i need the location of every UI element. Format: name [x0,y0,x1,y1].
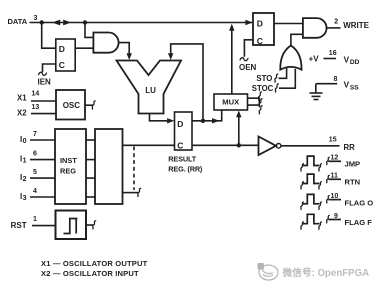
oscillator OSC block [56,90,85,120]
wire bidirectional arrowheads on DATA line [52,20,71,26]
svg-text:3: 3 [34,15,38,22]
svg-text:WRITE: WRITE [343,21,369,30]
svg-text:12: 12 [331,155,339,162]
svg-text:REG: REG [60,167,76,176]
svg-text:1: 1 [33,216,37,223]
node RTN pin 11 output pulse [301,174,342,189]
svg-text:2: 2 [334,18,338,25]
wire OR output up into WRITE AND gate [291,34,303,46]
node I0 pin 7 input [30,139,55,141]
wire dashed control bus line [133,147,135,191]
svg-text:3: 3 [23,195,27,202]
svg-text:微信号: OpenFPGA: 微信号: OpenFPGA [282,266,370,279]
AND gate (WRITE output) [303,18,327,38]
node I3 pin 4 input [30,196,55,198]
node STOC label and squiggle [252,84,274,93]
wire IEN latch C input [43,64,56,72]
wire write register C input [244,40,253,57]
ground [310,84,323,100]
wire IEN enable squiggle [38,72,46,75]
wire DATA junction down to IEN latch D input [42,23,56,49]
node junction on DATA line (right) [83,20,87,24]
svg-text:8: 8 [334,76,338,83]
wire arrow into write register D input [245,20,252,25]
wire C line from decoder to RR and buffer [123,144,175,146]
node junction on C line below MUX [237,143,241,147]
svg-text:11: 11 [331,173,339,180]
node FLAG F pin 9 output pulse [301,214,342,229]
svg-text:REG. (RR): REG. (RR) [168,165,203,174]
svg-text:C: C [59,60,65,70]
svg-text:FLAG F: FLAG F [345,218,373,227]
note oscillator pin notes [41,259,148,278]
svg-text:DATA: DATA [8,17,28,26]
wire MUX right stubs [248,98,260,105]
node I1 pin 6 input [30,159,55,161]
wire STOC into OR gate [279,69,295,88]
svg-text:1: 1 [23,158,27,165]
svg-text:IEN: IEN [38,77,52,86]
svg-text:RST: RST [11,221,27,230]
node RESULT REG. (RR) label [168,154,203,173]
svg-text:9: 9 [334,213,338,220]
OR gate (STO/STOC) [280,46,301,70]
svg-text:RR: RR [344,143,356,152]
wire write register D output to WRITE AND gate [274,23,303,25]
svg-text:V: V [344,81,350,90]
node X2 pin 13 input [31,113,56,115]
svg-text:6: 6 [33,150,37,157]
svg-text:RTN: RTN [345,178,361,187]
svg-text:14: 14 [32,90,40,97]
wire feedback from RR output up and into LU right input [171,44,203,121]
D-latch IEN input register [56,39,75,71]
node FLAG O pin 10 output pulse [301,194,342,209]
watermark logo [258,263,279,280]
svg-text:D: D [59,44,65,54]
wire DATA junction down to AND gate top input [85,23,93,38]
svg-text:X2 — OSCILLATOR INPUT: X2 — OSCILLATOR INPUT [41,269,139,278]
node JMP pin 12 output pulse [301,156,342,171]
svg-text:STOC: STOC [252,84,274,93]
svg-text:INST: INST [60,156,77,165]
AND gate (data input gating) [93,33,118,53]
svg-text:LU: LU [145,86,156,95]
wire RR output pin 15 [281,145,340,147]
svg-text:D: D [177,119,183,129]
svg-text:RESULT: RESULT [168,154,196,163]
power-on reset pulse block [56,211,87,240]
svg-text:C: C [177,140,183,150]
svg-text:X1 — OSCILLATOR OUTPUT: X1 — OSCILLATOR OUTPUT [41,259,148,268]
svg-text:C: C [257,36,263,46]
wire RST block output stub with squiggle [86,224,94,226]
write register (D/C block, output latch) [253,13,274,46]
wire INST REG to decoder connectors [86,140,95,197]
wire decoder bottom stub with squiggle [123,192,139,194]
node OEN label [239,63,257,72]
svg-text:4: 4 [33,188,37,195]
svg-text:FLAG O: FLAG O [345,198,374,207]
svg-text:2: 2 [23,176,27,183]
node DATA pin 3 label [8,15,38,26]
wire RR D output to MUX bottom-left input [192,110,222,121]
svg-text:JMP: JMP [345,160,361,169]
wire IEN latch D output to AND gate [75,47,93,49]
result register RR (D/C block) [175,112,193,150]
wire LU output to result register D input [150,114,172,121]
node STO label and squiggle [256,74,272,83]
wire mid arrow on RR output [212,118,219,123]
wire MUX output up to write register data line [231,29,233,94]
node +V / pin 16 / VDD [324,58,337,60]
wire DATA bus horizontal [30,22,253,24]
svg-text:OEN: OEN [239,63,257,72]
svg-text:0: 0 [23,138,27,145]
MUX block [214,94,248,110]
svg-text:STO: STO [256,74,272,83]
svg-text:DD: DD [350,59,360,66]
wire OSC output stub with squiggle [85,104,93,106]
svg-text:D: D [257,19,263,29]
svg-text:15: 15 [329,137,337,144]
svg-text:SS: SS [350,84,359,91]
svg-text:MUX: MUX [222,98,239,107]
wire AND gate output into LU left input [119,43,129,56]
output buffer (RR pin driver) [259,137,277,156]
instruction register INST REG [55,129,86,204]
svg-text:16: 16 [329,50,337,57]
node IEN label [38,77,52,86]
instruction decoder block [95,129,123,204]
wire OEN enable squiggle [240,58,248,61]
wire RR/C line up into MUX bottom input [238,114,240,146]
node pin 8 / VSS [316,83,337,85]
node X1 pin 14 input [31,100,56,102]
logic unit LU funnel [117,61,182,114]
wire STO into OR gate [279,68,287,78]
node I2 pin 5 input [30,177,55,179]
wire WRITE output pin 2 [327,27,341,29]
node junction on DATA line (left) [40,20,44,24]
svg-text:OSC: OSC [63,101,81,110]
svg-text:5: 5 [33,169,37,176]
svg-text:+V: +V [309,55,320,64]
svg-text:X2: X2 [17,109,27,118]
node junction RR output / feedback [201,119,205,123]
svg-text:13: 13 [32,104,40,111]
svg-text:X1: X1 [17,94,27,103]
svg-text:10: 10 [331,193,339,200]
node RST pin 1 input [32,225,56,227]
svg-text:7: 7 [33,131,37,138]
svg-text:V: V [344,55,350,64]
